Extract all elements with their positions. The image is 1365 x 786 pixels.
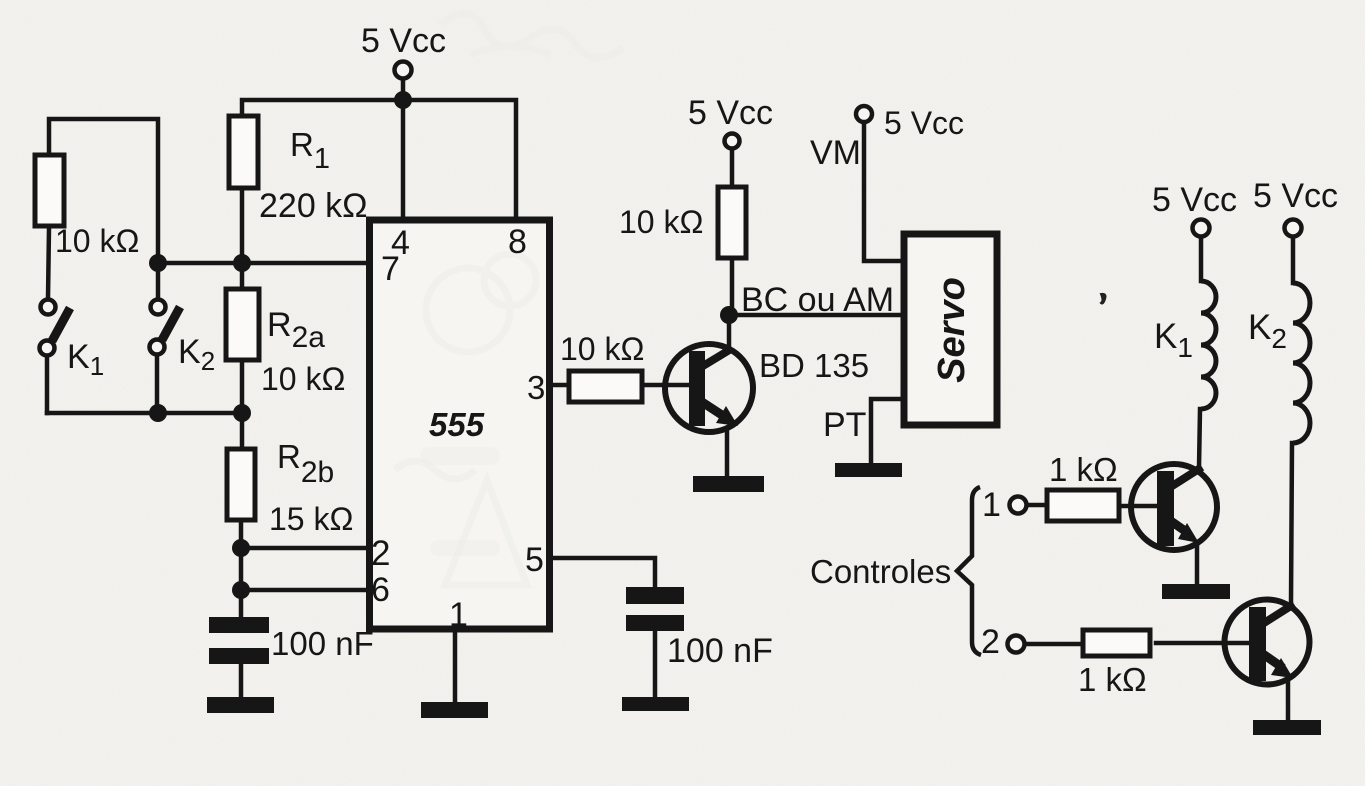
node junction bus K2 bbox=[149, 404, 167, 422]
terminal control 2 bbox=[1008, 636, 1025, 653]
svg-text:10 kΩ: 10 kΩ bbox=[619, 204, 703, 240]
svg-text:Controles: Controles bbox=[810, 553, 951, 590]
svg-text:5: 5 bbox=[525, 541, 544, 579]
resistor 1k top bbox=[1047, 490, 1119, 521]
wire node to K2 top bbox=[156, 263, 161, 298]
terminal 5Vcc VM bbox=[856, 106, 872, 122]
wire node to pin 2 bbox=[241, 546, 368, 551]
wire 5Vcc terminal to rail bbox=[401, 79, 406, 100]
ground below Q2 bbox=[1253, 720, 1321, 735]
capacitor C1 bbox=[209, 617, 269, 664]
ghost smudges (scan bleed-through) bbox=[440, 14, 623, 58]
relay coil K2 bbox=[1293, 283, 1310, 443]
wire bottom bus K1 K2 to R2 column bbox=[47, 411, 242, 416]
wire 5Vcc to pullup resistor bbox=[730, 149, 735, 185]
wire Q1 emitter to ground bbox=[1195, 543, 1200, 585]
transistor Q1 BD135 bbox=[665, 344, 753, 432]
wire K1 bottom down bbox=[45, 357, 50, 413]
Servo box bbox=[904, 234, 997, 425]
svg-text:5 Vcc: 5 Vcc bbox=[688, 94, 773, 132]
svg-text:10 kΩ: 10 kΩ bbox=[261, 361, 345, 397]
svg-text:1 kΩ: 1 kΩ bbox=[1049, 451, 1118, 488]
capacitor C2 bbox=[626, 587, 684, 631]
svg-text:Servo: Servo bbox=[931, 277, 973, 383]
svg-text:220 kΩ: 220 kΩ bbox=[259, 187, 368, 225]
wire node to pin 6 bbox=[241, 588, 368, 593]
svg-text:VM: VM bbox=[810, 134, 861, 172]
resistor 10k left bbox=[35, 155, 64, 226]
brace Controles bbox=[957, 487, 981, 655]
resistor R2b bbox=[227, 449, 255, 520]
wire node to pin 7 bbox=[158, 261, 368, 266]
wire terminal 2 to resistor bbox=[1025, 642, 1081, 647]
wire left 10k bottom to K1 bbox=[48, 228, 49, 298]
svg-text:BD 135: BD 135 bbox=[759, 347, 869, 384]
svg-text:15 kΩ: 15 kΩ bbox=[269, 501, 353, 537]
svg-text:8: 8 bbox=[508, 223, 527, 261]
svg-text:100 nF: 100 nF bbox=[667, 632, 773, 670]
wire R1 bottom to node bbox=[240, 190, 245, 287]
svg-text:10 kΩ: 10 kΩ bbox=[55, 223, 139, 259]
wire BD135 emitter to ground bbox=[725, 430, 730, 478]
switch K1 bbox=[40, 300, 71, 356]
wire pin 5 to cap C2 bbox=[550, 558, 655, 587]
terminal 5Vcc top bbox=[395, 62, 412, 79]
transistor Q3 (control 2) bbox=[1225, 600, 1310, 685]
resistor R1 bbox=[229, 116, 258, 188]
wire C2 bottom to ground bbox=[653, 631, 658, 699]
svg-text:5 Vcc: 5 Vcc bbox=[1253, 177, 1338, 215]
svg-text:1: 1 bbox=[449, 596, 468, 634]
relay coil K1 bbox=[1201, 281, 1216, 409]
ground below C2 bbox=[622, 697, 689, 711]
node junction pin2 bbox=[232, 539, 250, 557]
wire terminal 1 to resistor bbox=[1027, 503, 1043, 508]
wire Q2 emitter to ground bbox=[1286, 681, 1291, 722]
wire top of left 10k to node bbox=[49, 119, 158, 253]
wire K2 coil top to 5Vcc bbox=[1291, 237, 1296, 283]
node junction left node A bbox=[149, 254, 167, 272]
transistor Q2 (control 1) bbox=[1131, 464, 1217, 550]
svg-text:100 nF: 100 nF bbox=[271, 625, 374, 662]
terminal control 1 bbox=[1010, 497, 1027, 514]
wire PT stub bbox=[871, 399, 903, 465]
terminal 5Vcc K2 bbox=[1285, 220, 1302, 237]
ground below Q1 bbox=[1162, 584, 1230, 599]
svg-text:6: 6 bbox=[371, 571, 390, 609]
svg-text:3: 3 bbox=[527, 369, 545, 406]
wire K2 bottom down bbox=[155, 356, 160, 413]
wire R1 top to Vcc rail bbox=[242, 100, 403, 114]
node junction BC bbox=[720, 306, 738, 324]
ground below pin 1 bbox=[421, 702, 488, 718]
svg-text:7: 7 bbox=[381, 250, 400, 288]
wire VM terminal to Servo bbox=[864, 122, 903, 261]
wire rail to pin 4 bbox=[401, 100, 406, 219]
svg-text:2: 2 bbox=[981, 623, 1000, 661]
node junction R1/R2a bbox=[233, 254, 251, 272]
resistor 10k pullup bbox=[718, 187, 746, 258]
svg-text:BC ou AM: BC ou AM bbox=[741, 281, 894, 319]
wire BD135 collector up to node bbox=[727, 315, 732, 350]
node junction bus R2 bbox=[233, 404, 251, 422]
svg-text:1 kΩ: 1 kΩ bbox=[1078, 661, 1147, 698]
svg-text:10 kΩ: 10 kΩ bbox=[560, 331, 644, 367]
wire BC ou AM node to Servo bbox=[729, 313, 903, 318]
terminal 5Vcc pullup bbox=[725, 134, 740, 149]
terminal 5Vcc K1 bbox=[1193, 220, 1210, 237]
svg-text:2: 2 bbox=[371, 534, 390, 573]
resistor 1k bottom bbox=[1083, 630, 1150, 656]
wire pullup resistor to node bbox=[730, 260, 735, 315]
wire pin 1 to ground bbox=[453, 629, 458, 704]
wire pin 3 to base resistor bbox=[550, 383, 567, 388]
switch K2 bbox=[150, 300, 181, 355]
ground below BD135 bbox=[693, 476, 764, 492]
svg-text:5 Vcc: 5 Vcc bbox=[361, 22, 446, 60]
svg-text:1: 1 bbox=[982, 486, 1001, 524]
svg-text:PT: PT bbox=[823, 406, 866, 444]
wire K1 coil bottom to Q1 collector bbox=[1199, 409, 1200, 468]
wire K1 coil top to 5Vcc bbox=[1199, 237, 1204, 281]
resistor 10k base bbox=[569, 371, 642, 402]
resistor R2a bbox=[226, 289, 259, 360]
ground below PT bbox=[835, 463, 902, 477]
stray ink mark bbox=[1101, 294, 1106, 304]
ghost marks inside 555 (scan bleed) bbox=[395, 254, 536, 585]
svg-text:555: 555 bbox=[429, 406, 485, 443]
ground below C1 bbox=[207, 697, 274, 713]
svg-text:5 Vcc: 5 Vcc bbox=[1152, 181, 1237, 219]
node junction Vcc rail bbox=[394, 91, 412, 109]
wire rail to pin 8 bbox=[403, 100, 516, 219]
ghost patches inside 555 (scan bleed) bbox=[420, 447, 500, 556]
node junction pin6 bbox=[232, 581, 250, 599]
wire R2b bottom to cap C1 bbox=[239, 522, 244, 617]
svg-text:5 Vcc: 5 Vcc bbox=[884, 105, 964, 141]
wire K2 coil bottom to Q2 collector bbox=[1291, 443, 1292, 602]
wire C1 bottom to ground bbox=[239, 664, 244, 699]
wire resistor to Q2 base bbox=[1156, 641, 1250, 646]
wire R2a bottom to bus bbox=[240, 362, 245, 447]
wire base resistor to BD135 base bbox=[645, 383, 690, 388]
wire resistor to Q1 base bbox=[1120, 504, 1158, 509]
IC 555 box bbox=[370, 220, 550, 629]
